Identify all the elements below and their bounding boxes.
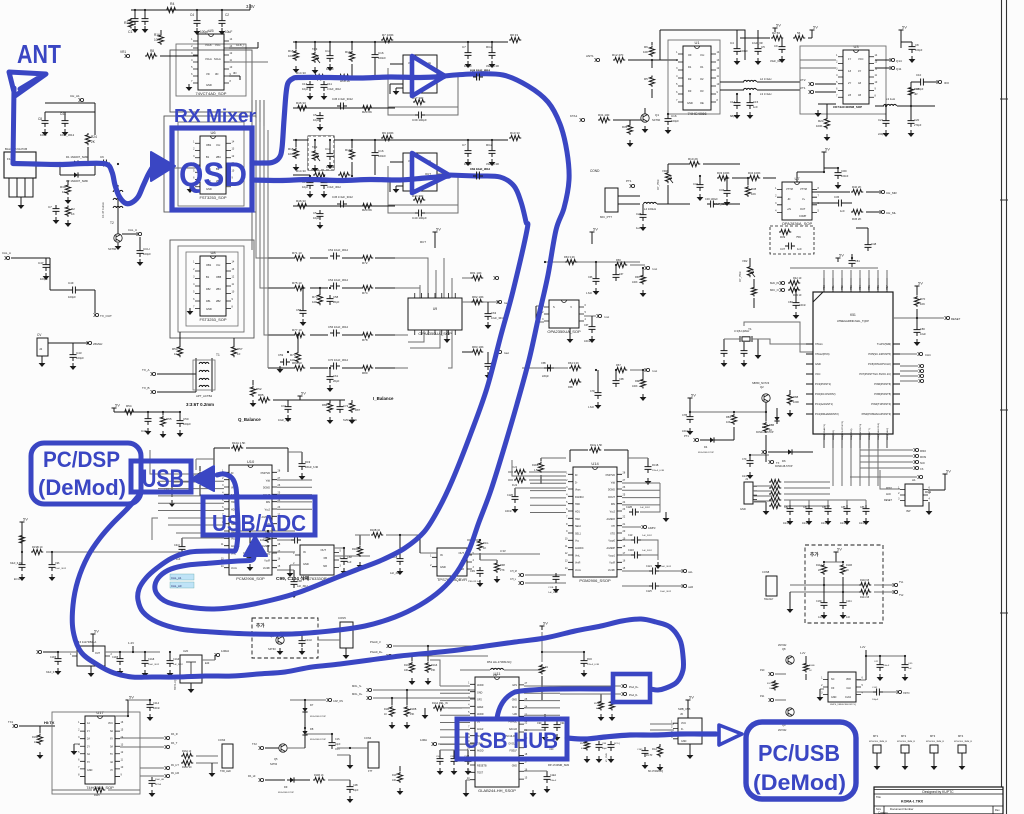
capacitor C85 reset: [914, 326, 921, 336]
svg-text:PA_LIR: PA_LIR: [171, 772, 179, 775]
crystal Y1: [742, 337, 750, 341]
svg-text:CLK_I: CLK_I: [236, 43, 245, 47]
svg-text:OUT: OUT: [321, 548, 327, 552]
svg-text:2Y: 2Y: [87, 745, 90, 748]
svg-text:XTI: XTI: [611, 525, 615, 528]
wire xtal to mcu: [752, 339, 813, 344]
svg-text:outL: outL: [688, 571, 693, 574]
svg-text:10nF: 10nF: [802, 522, 808, 525]
ground hub b2: [532, 790, 534, 793]
svg-text:1B2: 1B2: [206, 287, 211, 291]
svg-text:GND: GND: [303, 562, 309, 566]
svg-text:CON5: CON5: [338, 616, 346, 620]
svg-text:D2 1N4007_SMD: D2 1N4007_SMD: [66, 179, 88, 183]
svg-text:SMB_USB: SMB_USB: [678, 707, 691, 711]
resistor R91A: [584, 740, 589, 751]
terminal Iout1: [498, 300, 501, 303]
svg-text:PC3(PCINT1): PC3(PCINT1): [815, 382, 831, 386]
capacitor C70b: [595, 389, 602, 399]
svg-text:10nF: 10nF: [742, 475, 748, 478]
svg-text:PB6(XTAL1/CLK): PB6(XTAL1/CLK): [877, 423, 880, 440]
svg-text:Q2: Q2: [760, 385, 764, 389]
svg-text:1K: 1K: [384, 713, 387, 716]
wire out right rows: [462, 301, 500, 303]
wire: [45, 102, 95, 104]
svg-text:PA_HI: PA_HI: [248, 774, 256, 778]
resistor R35 v: [627, 124, 632, 135]
svg-text:R34 100K: R34 100K: [748, 171, 761, 175]
terminal IFO: [938, 80, 941, 83]
capacitor C71: [285, 403, 292, 413]
svg-text:USB/ADC: USB/ADC: [212, 510, 306, 536]
svg-text:C39 100pF: C39 100pF: [412, 118, 427, 122]
svg-text:R70: R70: [920, 297, 926, 301]
svg-text:10nF: 10nF: [783, 522, 789, 525]
svg-text:Vccm: Vccm: [575, 569, 581, 572]
ground c12c: [665, 515, 667, 518]
svg-text:C59: C59: [278, 353, 284, 357]
svg-text:HI:TX: HI:TX: [44, 720, 55, 725]
svg-text:PB7: PB7: [886, 285, 889, 290]
ground isp: [928, 508, 930, 511]
svg-text:VccR: VccR: [264, 560, 270, 563]
svg-text:12MHz: 12MHz: [648, 527, 656, 530]
svg-text:15K: 15K: [431, 669, 436, 672]
feedback loop box: [388, 68, 458, 107]
resistor R5: [649, 76, 654, 87]
svg-text:PA_LIT: PA_LIT: [171, 764, 179, 767]
svg-text:100pF: 100pF: [740, 49, 748, 53]
svg-text:C1D8: C1D8: [112, 656, 119, 659]
svg-text:R4: R4: [170, 2, 175, 6]
terminal PA_LIT: [166, 766, 169, 769]
svg-text:DOUT: DOUT: [608, 496, 615, 499]
svg-text:5V: 5V: [94, 629, 99, 634]
terminal TX_OUT: [95, 313, 98, 316]
terminal 12mhz: [216, 653, 219, 656]
svg-text:C7: C7: [48, 205, 52, 209]
svg-text:VCC: VCC: [681, 722, 686, 725]
connector CV: [37, 338, 48, 356]
svg-text:R80: R80: [362, 371, 368, 375]
svg-text:C83: C83: [803, 506, 808, 509]
svg-text:100pF: 100pF: [671, 119, 679, 123]
resistor R71 10: [293, 255, 305, 260]
capacitor Cx1: [327, 150, 334, 160]
svg-text:C16: C16: [671, 114, 677, 118]
svg-text:C13F: C13F: [816, 600, 822, 603]
capacitor C88: [341, 555, 348, 565]
resistor R80 10: [293, 365, 305, 370]
svg-text:J6: J6: [680, 712, 683, 716]
svg-text:Vdd: Vdd: [611, 481, 616, 484]
resistor R103 10: [371, 532, 383, 537]
wire hub 5v: [541, 632, 543, 662]
svg-text:C15: C15: [753, 100, 759, 104]
svg-text:R13A 10: R13A 10: [182, 750, 192, 753]
resistor R 2K: [361, 203, 373, 208]
capacitor C115: [329, 739, 336, 749]
terminal TX_A: [152, 372, 155, 375]
svg-text:R9 100K: R9 100K: [382, 131, 394, 135]
svg-text:RC9: RC9: [305, 460, 311, 464]
svg-text:TV2: TV2: [899, 594, 904, 597]
svg-text:T2: T2: [110, 221, 114, 225]
svg-text:5V: 5V: [129, 695, 134, 700]
svg-text:R8: R8: [150, 49, 154, 53]
svg-text:5V: 5V: [839, 253, 844, 258]
second row wire: [293, 107, 395, 109]
transistor Q4: [114, 234, 122, 242]
svg-text:C1G8: C1G8: [148, 658, 155, 661]
MCU K51 ATMEGA48: [813, 292, 893, 434]
svg-text:TXR_LED: TXR_LED: [220, 770, 231, 773]
resistor R1B v: [19, 534, 24, 545]
pin VCC: [806, 373, 813, 375]
power 5V husb: [686, 700, 691, 704]
svg-text:R79: R79: [290, 353, 296, 357]
svg-text:PT1: PT1: [684, 434, 689, 438]
svg-text:10pF: 10pF: [313, 216, 320, 220]
regulator U16 1117D50LA: [77, 646, 105, 666]
resistor R96: [265, 532, 270, 543]
opamp IC U15 OPA2350: [549, 300, 579, 328]
svg-text:OB5: OB5: [216, 275, 222, 279]
svg-text:2B2: 2B2: [216, 299, 221, 303]
svg-text:C81: C81: [855, 259, 860, 263]
svg-text:10nF: 10nF: [840, 522, 846, 525]
svg-text:4A: 4A: [110, 761, 113, 764]
svg-text:PB6: PB6: [877, 285, 880, 290]
capacitor C14c: [734, 99, 741, 109]
capacitor C20: [908, 117, 915, 127]
terminal VT1: [810, 90, 813, 93]
capacitor C1: [132, 15, 139, 25]
ground Q4: [117, 243, 119, 246]
svg-text:PIN5(PCINT5): PIN5(PCINT5): [874, 392, 891, 396]
capacitor C91: [554, 721, 561, 731]
regulator U12 TPS76333: [300, 545, 334, 575]
svg-text:R13C 10: R13C 10: [182, 766, 192, 769]
svg-text:R51A: R51A: [594, 702, 600, 705]
capacitor C34: [724, 187, 731, 197]
svg-text:R1D2: R1D2: [352, 547, 359, 551]
svg-text:R14B: R14B: [846, 564, 852, 567]
svg-text:R10 2K: R10 2K: [688, 157, 698, 161]
svg-text:PD1(TX0): PD1(TX0): [833, 430, 835, 440]
box USB HUB: [457, 719, 567, 759]
svg-text:GND: GND: [87, 769, 93, 772]
pin PC1(A/AGNT1): [806, 403, 813, 405]
svg-text:R15: R15: [288, 49, 294, 53]
svg-text:GND: GND: [687, 101, 693, 105]
connector CON4: [368, 742, 379, 768]
resistor R50: [177, 345, 182, 357]
terminal CH4b: [919, 475, 922, 478]
svg-text:TX_OUT: TX_OUT: [100, 314, 112, 318]
capacitor C86: [863, 505, 870, 515]
capacitor C93: [169, 487, 176, 497]
power 5V U7: [822, 152, 827, 156]
svg-text:C7: C7: [462, 45, 466, 49]
svg-text:C10: C10: [916, 73, 922, 77]
svg-text:1nF: 1nF: [753, 105, 758, 109]
svg-text:C90: C90: [537, 722, 542, 725]
svg-text:PC1(A/AGNT1): PC1(A/AGNT1): [815, 402, 833, 406]
svg-text:C142: C142: [872, 687, 878, 689]
capacitor C89: [179, 543, 186, 553]
svg-text:C67: C67: [619, 273, 624, 276]
svg-text:-IN: -IN: [787, 198, 791, 201]
resistor R32: [65, 206, 70, 217]
svg-text:DIN: DIN: [266, 501, 270, 504]
svg-text:MT4: MT4: [958, 734, 964, 738]
resistor R10B2: [538, 462, 543, 473]
diode D4: [707, 437, 717, 442]
wire antenna feed: [13, 163, 152, 204]
hub IC U11 GLAB: [475, 677, 519, 787]
svg-text:68-1736M-NQ: 68-1736M-NQ: [648, 770, 663, 773]
capacitor C27: [640, 211, 647, 221]
svg-text:C70 10uF_3012: C70 10uF_3012: [328, 358, 349, 362]
svg-text:1nF: 1nF: [797, 247, 802, 251]
resistor R66: [615, 262, 627, 267]
svg-text:Q1: Q1: [655, 113, 659, 117]
svg-text:5V: 5V: [436, 227, 441, 232]
svg-text:L2 3.3uH: L2 3.3uH: [760, 77, 771, 81]
svg-text:VCC: VCC: [215, 43, 221, 47]
resistor R72: [361, 255, 373, 260]
terminal D- res: [514, 477, 526, 482]
codec IC U14 PCM2906 right: [573, 467, 617, 577]
wire u18: [856, 679, 866, 681]
svg-text:KTA1: KTA1: [570, 114, 578, 118]
capacitor C coupling2: [337, 201, 347, 208]
svg-text:C50: C50: [183, 417, 189, 421]
svg-text:1Y: 1Y: [87, 730, 90, 733]
svg-text:TX_B: TX_B: [142, 386, 150, 390]
terminal CH_MR: [881, 190, 884, 193]
svg-text:5V: 5V: [689, 695, 694, 700]
svg-text:U1: U1: [694, 40, 700, 45]
svg-text:TX: TX: [776, 461, 780, 465]
svg-text:10K: 10K: [260, 538, 265, 542]
svg-text:O2: O2: [700, 77, 704, 81]
terminal CAL_U: [138, 232, 141, 235]
resistor R79 10K v2: [295, 351, 300, 363]
svg-text:Vccm: Vccm: [231, 567, 237, 570]
svg-text:PB2: PB2: [841, 285, 844, 290]
capacitor C54: [330, 283, 340, 290]
svg-text:U8: U8: [210, 250, 216, 255]
svg-text:C16: C16: [378, 149, 384, 153]
terminal outR: [683, 584, 686, 587]
svg-text:CH_ML: CH_ML: [886, 211, 897, 215]
svg-text:R54: R54: [126, 404, 132, 408]
svg-text:C96: C96: [55, 562, 60, 565]
svg-text:U20: U20: [183, 649, 189, 653]
svg-text:KDS4148-STOP: KDS4148-STOP: [775, 465, 793, 468]
svg-text:U9: U9: [433, 307, 437, 311]
ground U3: [817, 110, 819, 113]
svg-text:RC1B: RC1B: [652, 464, 659, 467]
svg-text:100K: 100K: [816, 124, 823, 128]
svg-text:MY_PWR: MY_PWR: [606, 753, 608, 762]
svg-text:S4T60: S4T60: [108, 247, 117, 251]
svg-text:R30: R30: [60, 185, 66, 189]
svg-text:R13B: R13B: [32, 736, 38, 739]
svg-text:C4: C4: [730, 41, 734, 45]
connector CON8: [766, 576, 777, 596]
svg-text:100pF: 100pF: [326, 67, 334, 71]
svg-text:VccRF: VccRF: [263, 567, 271, 570]
svg-text:CAP_ON: CAP_ON: [333, 700, 343, 703]
svg-text:C63: C63: [491, 311, 497, 315]
svg-text:10nF: 10nF: [40, 133, 47, 137]
capacitor C7 right: [465, 49, 472, 59]
svg-text:R3: R3: [124, 21, 129, 25]
svg-text:U10: U10: [247, 459, 255, 464]
resistor R14B2: [840, 564, 845, 575]
ground c122: [657, 562, 659, 565]
ground U6: [189, 186, 191, 189]
resistor R88 100K: [787, 393, 792, 405]
svg-text:D3: D3: [688, 89, 692, 93]
resistor R85: [258, 397, 270, 402]
svg-text:AVDD: AVDD: [477, 684, 484, 687]
svg-text:RC1Q: RC1Q: [614, 743, 620, 745]
capacitor C67: [613, 271, 620, 281]
resistor R65: [569, 379, 581, 384]
buffer IC U17 74HC540: [85, 716, 115, 784]
pin PC3(PCINT1): [806, 383, 813, 385]
svg-text:Vcc2: Vcc2: [610, 511, 616, 514]
svg-text:U11: U11: [493, 671, 501, 676]
svg-text:R73: R73: [312, 295, 318, 299]
svg-text:D9: D9: [284, 785, 288, 789]
svg-text:PIN3(PO6MACAPCINT3): PIN3(PO6MACAPCINT3): [862, 412, 892, 416]
svg-text:C8: C8: [38, 117, 42, 121]
wire hub to PGM box: [497, 689, 612, 718]
resistor R7 100K: [381, 37, 393, 42]
capacitor C re hub: [581, 657, 588, 667]
resistor R1CX: [772, 680, 777, 691]
svg-text:R.22: R.22: [512, 484, 518, 487]
terminal tv2: [894, 590, 897, 593]
svg-text:CLK2: CLK2: [845, 696, 852, 699]
svg-text:R1DB: R1DB: [532, 464, 539, 467]
svg-text:PD6(ONT7): PD6(ONT7): [869, 428, 871, 440]
svg-text:1nF: 1nF: [908, 668, 912, 670]
svg-text:33uF_6.3R: 33uF_6.3R: [46, 671, 58, 674]
svg-text:D7: D7: [310, 703, 314, 707]
svg-text:COMP: COMP: [799, 215, 807, 218]
terminal KTA: [581, 118, 584, 121]
capacitor C8b: [909, 43, 916, 53]
wire reg in: [236, 530, 295, 532]
ground bbt: [190, 686, 192, 689]
svg-text:OPA2350UA_SOP: OPA2350UA_SOP: [547, 329, 581, 334]
svg-text:VCLA: VCLA: [205, 57, 212, 61]
svg-text:C2: C2: [225, 13, 229, 17]
capacitor C80: [793, 299, 800, 309]
codec IC U10 PCM2906 left: [229, 465, 272, 575]
capacitor C64: [485, 360, 492, 370]
capacitor RC2 33uF: [489, 49, 496, 59]
svg-text:1.2V: 1.2V: [128, 641, 134, 645]
capacitor C38b: [865, 241, 872, 251]
svg-text:Vcc: Vcc: [216, 263, 221, 267]
ground Q1: [644, 126, 646, 129]
svg-text:C1G0: C1G0: [305, 638, 312, 642]
svg-text:R77 10: R77 10: [292, 328, 302, 332]
svg-text:V: V: [570, 305, 572, 309]
svg-text:10pF: 10pF: [335, 743, 341, 746]
svg-text:5V: 5V: [691, 393, 696, 398]
svg-text:10K: 10K: [312, 300, 317, 304]
svg-text:3D: 3D: [215, 72, 218, 76]
wire Q sweep to USB/ADC: [155, 175, 528, 609]
svg-text:Vbus: Vbus: [575, 489, 581, 492]
svg-text:R8B: R8B: [769, 423, 774, 427]
svg-text:100pF: 100pF: [464, 162, 472, 166]
op-amp highlight I: [412, 56, 445, 96]
svg-text:CAL_U: CAL_U: [128, 228, 137, 232]
svg-text:GND: GND: [831, 696, 837, 699]
svg-text:Document Number: Document Number: [890, 807, 914, 811]
svg-text:33uF_6R: 33uF_6R: [155, 779, 164, 781]
svg-text:EC11: EC11: [14, 578, 20, 581]
svg-text:R46 33: R46 33: [296, 199, 306, 203]
svg-text:C55: C55: [296, 308, 302, 312]
svg-text:TV1: TV1: [899, 581, 904, 584]
svg-text:R1P: R1P: [392, 774, 397, 777]
svg-text:PA_R: PA_R: [171, 732, 178, 736]
resistor R53: [123, 409, 135, 414]
svg-text:MOSI: MOSI: [920, 456, 926, 459]
ground op-amp: [395, 186, 397, 189]
resistor R109 MIC_IN: [433, 705, 445, 710]
terminal VT2: [810, 82, 813, 85]
svg-text:PB3: PB3: [850, 285, 853, 290]
svg-text:1uF: 1uF: [347, 560, 352, 564]
capacitor C95: [451, 755, 458, 765]
dashed box mic comp: [770, 226, 814, 254]
resistor R105v: [409, 662, 414, 673]
terminal fs2: [770, 698, 773, 701]
svg-text:R10B 10: R10B 10: [370, 528, 381, 532]
capacitor C63: [485, 310, 492, 320]
svg-text:49.7R: 49.7R: [646, 754, 653, 757]
svg-text:12MH: 12MH: [420, 738, 427, 742]
svg-text:PIN4(T1PCINT4): PIN4(T1PCINT4): [871, 402, 891, 406]
svg-text:MT3: MT3: [930, 734, 936, 738]
inductor L2: [744, 80, 757, 82]
svg-text:5V: 5V: [543, 621, 548, 626]
svg-text:220uF_6.3R: 220uF_6.3R: [652, 470, 664, 472]
svg-text:KDS4148-STOP: KDS4148-STOP: [310, 716, 327, 718]
svg-text:1K: 1K: [62, 190, 66, 194]
svg-text:HD0: HD0: [575, 503, 580, 506]
power 540: [126, 700, 131, 704]
svg-text:33uF_6R: 33uF_6R: [770, 59, 781, 63]
ground cv: [41, 356, 43, 360]
svg-text:R63 3.3K: R63 3.3K: [564, 255, 575, 259]
capacitor C101: [477, 567, 484, 577]
svg-text:R6B: R6B: [568, 386, 573, 389]
capacitor C102: [397, 555, 404, 565]
resistor R100 1K: [477, 540, 482, 551]
